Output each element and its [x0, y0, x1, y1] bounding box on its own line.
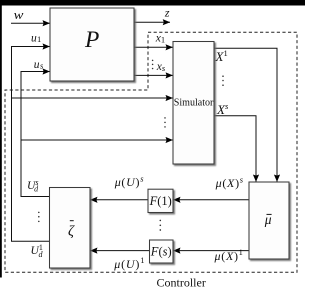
svg-text:xs: xs [156, 61, 166, 73]
svg-text:Usd: Usd [27, 178, 39, 194]
page black left edge [0, 6, 2, 278]
block F(s) [150, 240, 174, 263]
svg-text:x1: x1 [155, 33, 165, 45]
block Simulator [173, 42, 214, 165]
block mu-bar [249, 182, 289, 259]
block F(1) [148, 189, 173, 212]
vdots right of Simulator between X1 and Xs [222, 75, 224, 86]
wire us branch to Simulator [21, 139, 173, 141]
wire us feedback: zeta out U_d^s up to P input [21, 72, 50, 197]
svg-text:U1d: U1d [31, 243, 44, 259]
svg-text:X1: X1 [215, 48, 228, 64]
svg-text:Controller: Controller [157, 275, 206, 289]
wire z output [134, 21, 170, 23]
dashed controller boundary [5, 32, 297, 272]
svg-text:w: w [14, 8, 25, 22]
block zeta-bar [50, 188, 91, 269]
wire mu(U)^1 to zeta [90, 250, 149, 252]
wire xs [134, 74, 173, 76]
svg-text:Simulator: Simulator [174, 98, 214, 109]
wire w input [11, 22, 50, 24]
vdots between x1 and xs [152, 60, 154, 70]
svg-text:P: P [84, 27, 99, 53]
wire mu(U)^s to zeta [90, 199, 148, 201]
svg-text:us: us [34, 59, 44, 71]
svg-text:F(1): F(1) [149, 194, 172, 208]
svg-text:u1: u1 [31, 32, 41, 44]
wire mu(X)^s to F(1) [173, 199, 249, 201]
wire mu(X)^1 to F(s) [173, 250, 249, 252]
wire x1 [134, 46, 173, 48]
svg-text:z: z [164, 5, 170, 19]
wire X^1 to mu [214, 48, 277, 182]
svg-text:μ(U)1: μ(U)1 [113, 255, 145, 271]
svg-text:μ(X)1: μ(X)1 [214, 247, 244, 263]
vdots left of Simulator between u lines [164, 117, 166, 128]
svg-text:F(s): F(s) [150, 244, 172, 258]
wire u1 feedback: zeta out U_d^1 up to P input [12, 47, 51, 242]
block P [50, 8, 134, 81]
svg-text:μ(U)s: μ(U)s [114, 173, 145, 189]
wire X^s to mu [214, 116, 256, 182]
svg-text:μ(X)s: μ(X)s [215, 174, 244, 190]
page black top edge [0, 0, 305, 6]
vdots between F blocks [159, 220, 161, 231]
vdots between U_d labels [38, 212, 40, 223]
wire u1 branch to Simulator [12, 97, 173, 99]
svg-text:Xs: Xs [216, 101, 229, 117]
